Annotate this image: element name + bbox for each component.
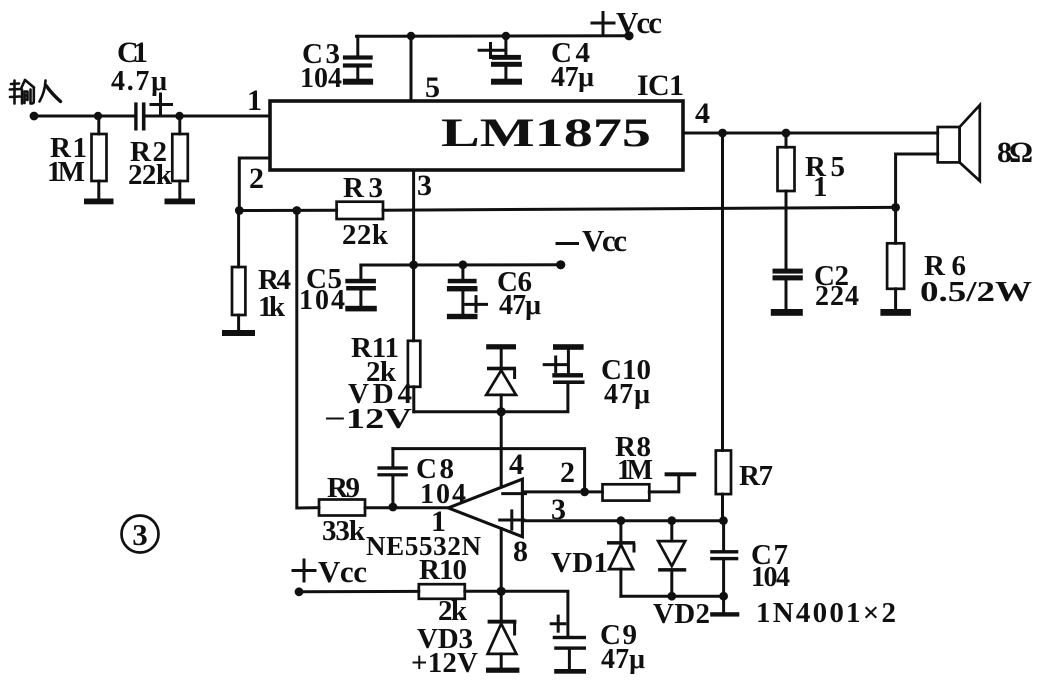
svg-text:3: 3	[132, 517, 148, 552]
node pin8 junction	[497, 587, 506, 596]
svg-text:R3: R3	[343, 172, 383, 204]
node +Vcc terminal	[624, 31, 633, 40]
svg-text:47μ: 47μ	[551, 62, 594, 93]
wire C1 to IC pin 1	[146, 115, 270, 118]
ground C6	[447, 314, 478, 319]
node pin3 -Vcc junction	[409, 261, 418, 270]
wire +Vcc to R10	[299, 590, 419, 593]
node -Vcc terminal	[556, 260, 565, 269]
diode VD2	[653, 521, 710, 630]
svg-text:R7: R7	[739, 460, 773, 492]
wire output down to R7	[721, 133, 724, 451]
ground C3	[343, 79, 373, 85]
capacitor C10	[544, 350, 651, 410]
wire R10 to C9	[465, 591, 568, 636]
svg-text:47μ: 47μ	[604, 379, 650, 410]
node output vertical junction	[718, 129, 727, 138]
pin 5 label	[425, 71, 440, 104]
node R5 junction	[782, 129, 791, 138]
wire C8 top line to pin 2	[393, 449, 585, 492]
svg-text:+12V: +12V	[411, 647, 478, 679]
resistor R7	[716, 451, 773, 521]
node +Vcc bottom terminal	[295, 587, 304, 596]
svg-text:4.7μ: 4.7μ	[111, 66, 167, 97]
ground R4	[222, 330, 255, 336]
svg-text:8Ω: 8Ω	[997, 136, 1033, 169]
wire diode bottom rail	[621, 595, 724, 598]
svg-text:3: 3	[417, 169, 432, 202]
resistor R8	[603, 431, 654, 501]
power -Vcc label	[557, 223, 627, 258]
svg-text:VD1: VD1	[551, 547, 608, 579]
svg-text:47μ: 47μ	[499, 290, 541, 321]
ground VD4	[486, 344, 516, 349]
capacitor C9	[551, 616, 645, 675]
wire op-amp pin 3 line	[522, 519, 723, 522]
capacitor C1	[111, 36, 172, 131]
label shuru input chinese	[10, 80, 61, 104]
svg-text:4: 4	[695, 97, 710, 130]
svg-text:22k: 22k	[342, 219, 389, 251]
ground R6	[880, 309, 911, 316]
resistor R3	[337, 172, 389, 251]
svg-text:−12V: −12V	[324, 403, 412, 435]
svg-text:1: 1	[247, 84, 262, 117]
pin 1 label	[247, 84, 262, 117]
pin 3 label op-amp	[551, 493, 566, 526]
svg-text:4: 4	[509, 448, 524, 481]
svg-text:104: 104	[751, 562, 790, 593]
node R1 junction	[94, 112, 102, 120]
pin 3 label	[417, 169, 432, 202]
diode VD1	[551, 521, 635, 597]
svg-text:1N4001×2: 1N4001×2	[756, 597, 896, 629]
ground R2	[165, 199, 196, 205]
svg-text:0.5/2W: 0.5/2W	[920, 277, 1032, 308]
wire -12V rail	[414, 384, 568, 412]
node pin2 R8 junction	[580, 488, 589, 497]
wire op-amp pin 4 supply	[500, 412, 503, 488]
capacitor C2	[773, 260, 860, 312]
wire feedback line R3 to speaker	[383, 207, 896, 210]
node pin5 rail junction	[407, 32, 415, 40]
svg-text:47μ: 47μ	[601, 644, 645, 675]
pin 4 label op-amp	[509, 448, 524, 481]
svg-text:Vcc: Vcc	[616, 5, 662, 40]
ground VD3	[486, 668, 519, 673]
node input terminal	[30, 112, 39, 121]
node R7 C7 junction	[719, 516, 728, 525]
capacitor C8	[377, 449, 466, 510]
svg-text:Vcc: Vcc	[582, 223, 627, 258]
svg-text:1k: 1k	[258, 291, 286, 323]
wire pin 2 stub	[239, 158, 270, 211]
wire op-amp pin 2 stub	[522, 490, 602, 493]
svg-text:33k: 33k	[322, 515, 366, 547]
ground C7	[710, 596, 739, 616]
node speaker feedback junction	[891, 203, 900, 212]
wire +Vcc rail	[357, 34, 630, 38]
node C4 rail junction	[502, 32, 510, 40]
svg-text:5: 5	[425, 71, 440, 104]
pin 2 label op-amp	[560, 456, 575, 489]
wire speaker bottom terminal	[896, 154, 938, 207]
speaker 8 ohm	[938, 105, 1033, 181]
wire IC output pin 4	[683, 132, 938, 135]
svg-text:2: 2	[249, 162, 264, 195]
node C8 bottom junction	[389, 503, 398, 512]
svg-text:1M: 1M	[617, 455, 653, 486]
node C7 bottom junction	[719, 592, 728, 601]
node VD2 junction	[667, 516, 676, 525]
svg-text:R10: R10	[419, 554, 467, 586]
node VD1 junction	[617, 516, 626, 525]
wire -Vcc rail	[361, 263, 561, 266]
svg-text:2: 2	[560, 456, 575, 489]
svg-text:8: 8	[513, 535, 528, 568]
wire op-amp pin 8	[500, 529, 503, 592]
svg-text:R9: R9	[327, 472, 360, 504]
wire IC pin 3 vertical	[412, 170, 415, 341]
svg-text:IC1: IC1	[637, 69, 684, 102]
node VD2 bottom junction	[667, 592, 676, 601]
resistor R6	[887, 207, 1032, 309]
svg-text:104: 104	[299, 285, 345, 316]
capacitor C5	[299, 263, 376, 316]
ground C2	[771, 309, 803, 316]
svg-text:104: 104	[300, 63, 342, 94]
power +Vcc label bottom	[293, 554, 367, 589]
resistor R2	[128, 116, 188, 199]
ground C10	[553, 344, 584, 350]
ground C5	[345, 306, 377, 312]
pin 2 label	[249, 162, 264, 195]
zener diode VD4	[324, 349, 516, 435]
op-amp U2 NE5532N	[366, 479, 526, 561]
svg-text:Vcc: Vcc	[318, 554, 367, 589]
pin 8 label op-amp	[513, 535, 528, 568]
svg-text:VD2: VD2	[653, 598, 710, 630]
svg-text:1: 1	[813, 171, 828, 203]
ground C9	[554, 669, 586, 674]
capacitor C4	[479, 36, 594, 93]
ground R1	[84, 199, 114, 205]
node -12V junction	[497, 407, 506, 416]
svg-text:224: 224	[815, 281, 859, 312]
ground R8	[665, 472, 697, 476]
wire R9 branch vertical	[297, 211, 319, 509]
wire feedback line left to R3	[239, 209, 336, 212]
op-amp IC1 LM1875	[270, 69, 684, 170]
svg-text:22k: 22k	[128, 159, 173, 191]
svg-text:C1: C1	[117, 36, 148, 69]
ground C4	[491, 79, 522, 85]
resistor R5	[778, 133, 846, 269]
zener diode VD3	[411, 591, 516, 679]
wire pin 5 stem	[410, 36, 413, 101]
wire input to C1	[34, 115, 133, 118]
capacitor C3	[300, 36, 373, 94]
node pin2 feedback junction	[235, 206, 244, 215]
resistor R9	[319, 472, 366, 547]
node R2 junction	[175, 112, 183, 120]
resistor R10	[419, 554, 468, 627]
wire R9 to op-amp pin 1	[365, 506, 448, 509]
resistor R1	[47, 116, 107, 199]
figure number 3	[122, 516, 159, 553]
power +Vcc label top	[592, 5, 662, 40]
node C6 junction	[459, 260, 468, 269]
svg-text:LM1875: LM1875	[441, 110, 651, 155]
label 1N4001 x2	[756, 597, 896, 629]
wire R8 to ground bar	[649, 476, 679, 492]
node R9 branch junction	[292, 206, 301, 215]
resistor R4	[232, 211, 291, 331]
capacitor C7	[710, 521, 790, 597]
pin 4 label	[695, 97, 710, 130]
resistor R11	[351, 332, 420, 412]
svg-text:1M: 1M	[47, 156, 85, 188]
pin 1 label op-amp	[431, 505, 446, 538]
svg-text:1: 1	[431, 505, 446, 538]
capacitor C6	[447, 265, 541, 321]
